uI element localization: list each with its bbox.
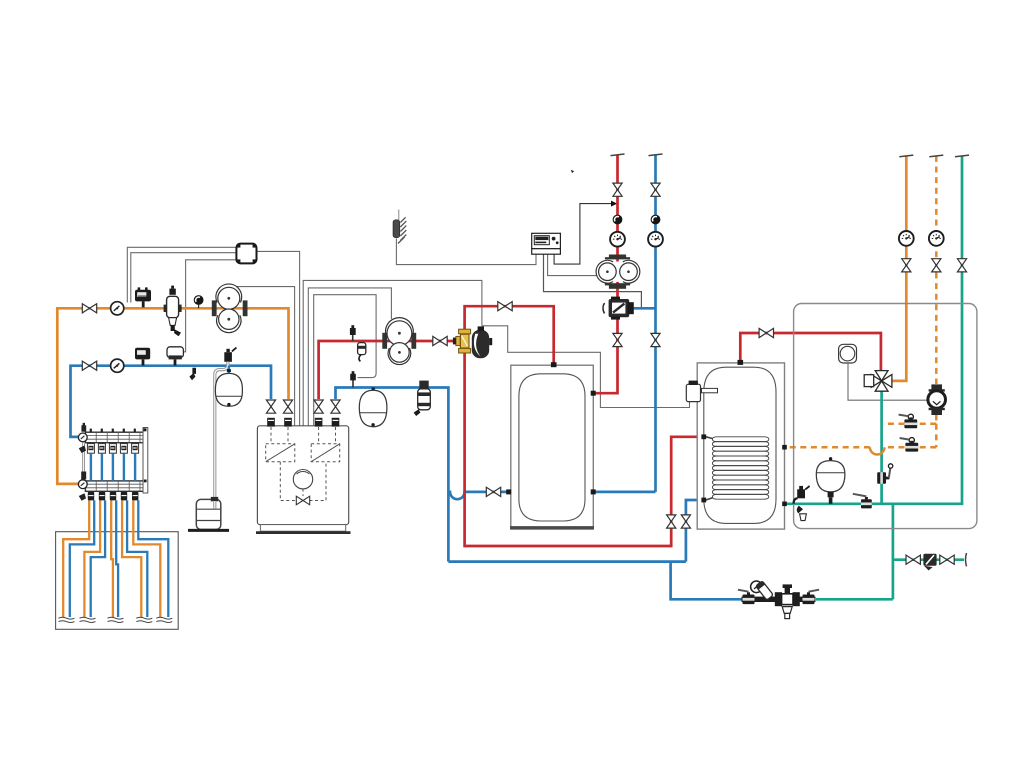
teal drop from 4-way valve: [880, 390, 883, 504]
thermometer on red column: [613, 215, 623, 225]
filling station: pressure gauge: [751, 581, 763, 593]
ball valve on teal drop: [877, 464, 893, 484]
condensate pump: [196, 499, 221, 529]
safety valve on blue main: [224, 352, 232, 362]
ball valve on upper dashed branch: [899, 414, 918, 428]
floor loop pipes st2 blue: [91, 500, 105, 617]
twin pump on red boiler line: [382, 318, 416, 365]
red drop to DHW coil: [465, 352, 704, 546]
red DHW tank top to heat pump valve: [740, 333, 881, 371]
buffer tank enclosure: [511, 365, 594, 529]
wire: controller2 to right twin pump: [548, 254, 597, 275]
buffer tank base: [510, 526, 594, 529]
gate valve on red buffer top line: [498, 302, 512, 311]
ink speck: [571, 170, 574, 173]
buffer left lower port connector: [506, 489, 511, 494]
outdoor sensor: [393, 210, 406, 244]
air vent on blue boiler line: [352, 380, 354, 388]
shut-off valve on red column: [613, 183, 622, 196]
wire: bundle to circulator pump and DHW sensor: [303, 280, 689, 427]
floor heating zone box: [56, 532, 179, 630]
orange hop over teal drop: [870, 447, 885, 454]
DHW coil bottom connector: [701, 498, 706, 503]
floor loop pipes st5 blue: [138, 500, 168, 617]
twin pump on orange main: [212, 284, 248, 333]
boiler heat exchanger left: [266, 444, 295, 462]
thermostatic 3-way valve (brass): [453, 329, 471, 353]
valve on red column below diverter: [613, 333, 622, 346]
teal cold water bottom manifold: [785, 156, 963, 504]
cap red column: [611, 154, 625, 156]
cap blue column: [649, 154, 663, 156]
valve on orange column: [902, 259, 911, 272]
DHW coil: [712, 437, 768, 499]
gate valve on blue buffer left line: [486, 487, 500, 496]
filling station: right ball valve: [803, 590, 820, 604]
wire: left twin pump to boiler bundle: [236, 287, 295, 427]
valve 2 on drain branch: [940, 555, 954, 564]
valve on teal column: [957, 259, 966, 272]
floor loop pipes st4 orange: [122, 500, 141, 617]
safety relief group on teal line: [794, 486, 810, 521]
DHW tank vessel: [704, 367, 776, 523]
red buffer to heating flow column: [585, 155, 618, 393]
blue line boiler to buffer bottom: [336, 388, 686, 562]
blue bottom run to filling station: [671, 562, 742, 600]
manifold bottom gauge: [78, 480, 87, 489]
temperature gauge on red column: [610, 232, 625, 247]
riser valve 4 (blue): [331, 400, 340, 413]
orange supply main to manifold: [57, 308, 288, 484]
valve on blue main: [82, 361, 96, 370]
gauge on orange main: [111, 302, 124, 315]
heat pump compressor: [839, 344, 857, 363]
orange DHW hot supply column: [890, 156, 907, 381]
manifold bottom drain: [79, 493, 86, 501]
boiler ground line: [256, 531, 351, 534]
DHW right teal port connector: [782, 502, 787, 507]
teal drain cap: [966, 553, 967, 566]
air separator on orange main: [167, 296, 179, 317]
boiler internal pump: [293, 470, 312, 489]
gate valve on red boiler line: [433, 336, 447, 345]
DHW tank thermostat head: [686, 384, 700, 401]
buffer right lower port connector: [591, 489, 596, 494]
wire: controller1 to orange line device 2: [131, 253, 237, 303]
filling station body bar: [742, 597, 816, 602]
blue riser to DHW coil bottom: [686, 500, 704, 562]
actuator pump on 3-way valve: [472, 326, 492, 358]
shut-off valve on blue column: [651, 183, 660, 196]
boiler internal dashed loop: [280, 462, 326, 501]
DHW thermostat cap: [689, 381, 698, 385]
4-way valve actuator: [864, 375, 874, 387]
drain cock on blue main: [192, 368, 196, 374]
blue heating return column: [654, 155, 657, 492]
wire: controller1 right to boiler bundle: [257, 251, 300, 427]
manifold bottom bar: [85, 481, 145, 491]
cap teal column: [955, 155, 969, 157]
DHW top port connector: [738, 360, 744, 365]
pressure switch on blue main: [135, 348, 150, 360]
3-way diverter valve on red column: [603, 297, 634, 320]
blue branch to buffer left with hop: [448, 492, 510, 499]
ball valve on teal bottom line: [853, 494, 872, 509]
valve on red DHW riser: [667, 515, 676, 528]
valve on blue DHW riser: [681, 515, 690, 528]
flow indicator under red boiler line: [358, 343, 366, 355]
manifold top bar: [85, 432, 145, 443]
boiler unit body: [257, 426, 348, 525]
valve on orange main: [82, 304, 96, 313]
wire: controller2 to flow sensor on red column: [554, 204, 611, 265]
floor loop pipes st4 blue: [127, 500, 147, 617]
expansion vessel teal: [816, 461, 845, 492]
DHW coil port stubs: [706, 437, 713, 439]
air vent on red boiler line: [352, 334, 354, 341]
dirt filter on blue boiler line: [419, 381, 428, 389]
gauge on blue main: [111, 359, 124, 372]
boiler heat exchanger right: [311, 444, 340, 462]
thermometer on orange main: [198, 305, 200, 309]
riser union connectors: [267, 418, 275, 427]
manifold bottom valves: [88, 492, 139, 501]
floor loop end waves: [59, 617, 173, 622]
condensate ground line: [188, 529, 229, 532]
riser valve 1 (blue): [266, 400, 275, 413]
DHW tank thermostat stem: [702, 388, 718, 392]
valve on red DHW top line: [759, 328, 773, 337]
wire: heat pump compressor to recirculation pump: [848, 364, 928, 401]
riser valve 3 (red): [314, 400, 323, 413]
manifold station risers blue: [91, 453, 135, 481]
orange dashed pump outlet stub: [884, 415, 937, 448]
wire: bundle to air vent on blue line: [314, 295, 376, 427]
red riser valve to buffer top: [465, 306, 554, 372]
wire: bundle to red twin pump: [308, 288, 391, 427]
DHW tank enclosure: [697, 363, 784, 529]
controller 2: [532, 233, 561, 254]
sensor arrowhead on red column: [611, 201, 617, 207]
thermometer on blue column: [651, 215, 661, 225]
pressure switch on orange main: [135, 290, 151, 302]
valve 1 on drain branch: [906, 555, 920, 564]
wire: controller1 to orange line device: [127, 247, 236, 302]
boiler plinth: [260, 525, 345, 532]
actuator head on blue main: [167, 347, 183, 358]
riser valve 2 (orange): [283, 400, 292, 413]
floor loop pipes st3 blue: [116, 500, 118, 617]
wire: controller1 to blue line actuator: [184, 260, 236, 352]
manifold wall bracket: [143, 428, 148, 494]
strainer on drain branch: [923, 554, 936, 571]
recirculation pump: [928, 384, 946, 415]
ball valve on lower dashed branch: [900, 438, 919, 452]
expansion vessel on blue boiler line: [372, 388, 375, 392]
floor loop pipes st1 blue: [70, 500, 94, 617]
teal drain branch: [893, 558, 964, 561]
DHW right dashed port connector: [782, 445, 787, 450]
filling station: backflow preventer: [775, 584, 800, 618]
gauge on orange column: [899, 231, 914, 246]
floor loop pipes st2 orange: [84, 500, 100, 617]
cap dashed column: [929, 155, 943, 157]
floor loop pipes st3 orange: [111, 500, 113, 617]
heat pump unit enclosure: [794, 304, 977, 529]
blue return main from manifold: [71, 366, 272, 437]
teal feed down to filling station run: [816, 504, 893, 600]
cap orange column: [899, 155, 913, 157]
wire: outdoor sensor to controller2: [396, 239, 536, 265]
floor loop pipes st1 orange: [63, 500, 89, 617]
boiler internal valve: [296, 496, 309, 505]
filling station: left ball valve: [738, 590, 755, 604]
twin pump on red column: [596, 255, 640, 289]
gauge on dashed column: [929, 231, 944, 246]
floor loop pipes st5 orange: [133, 500, 160, 617]
boiler internal dashed risers: [271, 427, 336, 444]
orange dashed to DHW tank side: [785, 446, 870, 449]
expansion vessel on blue main: [228, 366, 230, 374]
filling station: cartridge: [756, 581, 774, 600]
DHW coil top connector: [701, 434, 706, 439]
manifold top drain: [79, 446, 86, 454]
manifold interconnect pipe: [82, 443, 85, 481]
orange dashed recirculation column: [935, 156, 938, 384]
manifold top gauge: [78, 433, 87, 442]
buffer right upper port connector: [591, 391, 596, 396]
vessel bottom fitting: [828, 492, 834, 497]
blue buffer right to pump column: [593, 491, 655, 494]
blue stub 3way valve to column: [632, 307, 656, 310]
controller 1: [236, 244, 256, 264]
buffer tank vessel: [519, 374, 585, 521]
valve on blue column below diverter: [651, 333, 660, 346]
manifold air vent: [81, 425, 86, 431]
wire: controller2 to 3-way diverter valve: [544, 254, 642, 307]
red boiler flow line: [319, 341, 459, 399]
valve on dashed column: [932, 259, 941, 272]
temperature gauge on blue column: [648, 232, 663, 247]
buffer top port connector: [551, 362, 557, 367]
manifold flow meters and station pipes: [87, 429, 138, 454]
safety discharge pipe to condensate pump: [215, 362, 228, 508]
4-way reversing valve: [871, 371, 892, 392]
